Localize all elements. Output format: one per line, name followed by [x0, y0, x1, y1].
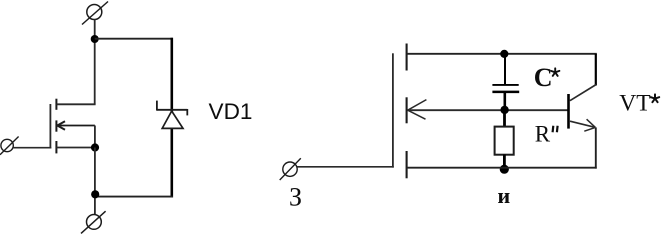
svg-text:З: З — [289, 183, 302, 212]
wire collector vertical — [595, 54, 597, 86]
capacitor C* top plate — [492, 84, 518, 86]
svg-text:R: R — [535, 122, 551, 147]
wire top rail right — [407, 53, 597, 55]
transistor Q1 drain tick — [55, 99, 57, 110]
node bottom junction dot — [91, 190, 99, 198]
wire capacitor bottom — [503, 92, 506, 110]
wire emitter vertical — [595, 127, 597, 168]
svg-text:VT: VT — [619, 91, 650, 117]
transistor VT* collector lead — [570, 85, 596, 101]
transistor Q1 body tick — [55, 120, 57, 131]
wire bottom rail right — [407, 167, 597, 169]
node resistor top dot — [500, 106, 508, 114]
node emitter rail dot — [500, 165, 509, 174]
node capacitor top dot — [500, 50, 508, 58]
resistor R'' body — [495, 127, 514, 155]
svg-text:C: C — [534, 63, 553, 92]
transistor VT source tick — [406, 151, 408, 178]
diode VD1 (zener) cathode bar — [157, 101, 187, 116]
wire resistor top — [503, 110, 506, 127]
wire middle rail (body lead to base) with arrow — [408, 100, 568, 120]
node source junction dot — [91, 143, 99, 151]
diode VD1 triangle — [162, 111, 183, 128]
wire bottom rail left — [95, 196, 173, 198]
wire gate lead right circuit — [297, 166, 394, 168]
wire gate lead left — [13, 147, 51, 149]
wire drain vertical — [94, 20, 96, 105]
wire top rail left — [95, 38, 173, 40]
wire drain lead — [56, 103, 95, 105]
transistor VT* emitter lead with arrow — [570, 119, 595, 131]
transistor VT body tick — [406, 97, 408, 123]
terminal X3 (bottom, circle-slash) — [81, 211, 106, 233]
wire capacitor top — [504, 54, 506, 85]
terminal gate (circle-slash) right circuit — [280, 158, 301, 180]
transistor Q1 gate line — [49, 104, 51, 149]
wire source lead — [56, 147, 95, 149]
wire body lead with arrow — [57, 121, 95, 130]
capacitor C* bottom plate — [492, 91, 519, 94]
wire source spine — [94, 148, 96, 215]
transistor VT drain tick — [406, 44, 408, 71]
svg-text:и: и — [498, 183, 511, 208]
svg-text:VD1: VD1 — [209, 99, 253, 124]
terminal X1 (top, circle-slash) — [82, 2, 108, 25]
transistor VT gate line — [392, 53, 394, 167]
transistor Q1 source tick — [55, 141, 57, 153]
wire resistor bottom — [503, 155, 506, 170]
wire diode branch vertical — [171, 38, 174, 198]
wire body vertical — [94, 126, 96, 148]
node drain junction dot — [91, 35, 99, 43]
terminal X2 (left, circle-slash) — [0, 137, 19, 155]
transistor VT* base bar — [567, 94, 570, 129]
